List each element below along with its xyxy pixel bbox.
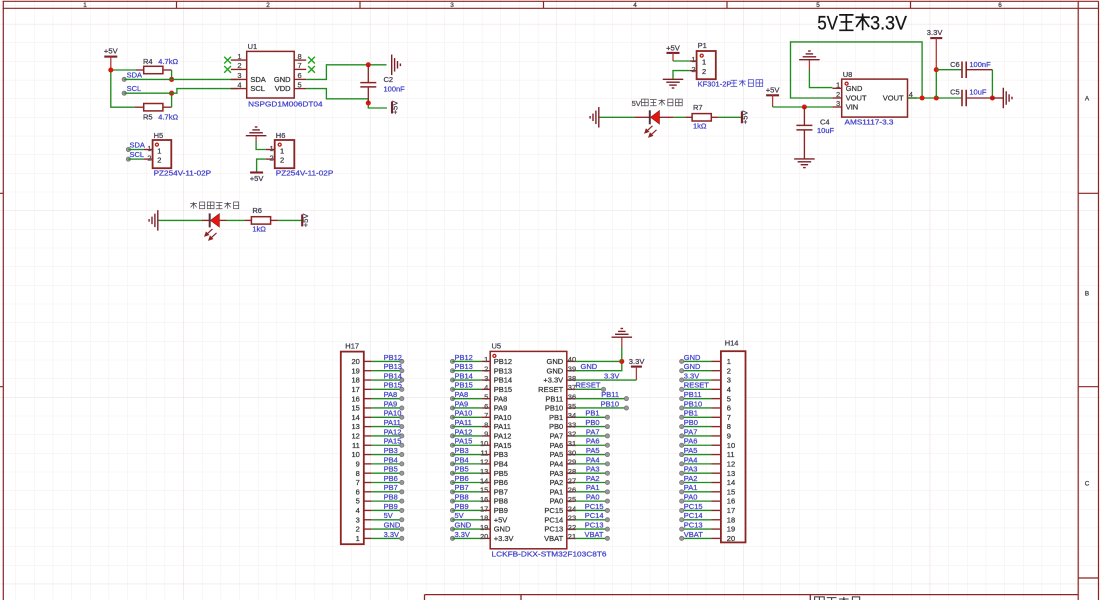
svg-text:C5: C5 xyxy=(950,88,960,97)
svg-text:14: 14 xyxy=(351,413,359,422)
svg-text:PC13: PC13 xyxy=(585,520,604,529)
U5 pin 38 (+3.3V) name/number xyxy=(543,374,576,385)
svg-text:PB10: PB10 xyxy=(601,399,619,408)
svg-text:PC14: PC14 xyxy=(585,511,604,520)
U5 pin 26 wire (PA1) xyxy=(575,483,609,494)
capacitor C6 100nF (horizontal) xyxy=(936,60,992,98)
U5 pin 7 (PA10) xyxy=(450,409,511,422)
svg-text:26: 26 xyxy=(568,486,576,495)
svg-text:18: 18 xyxy=(351,376,359,385)
wire U5 pin37 RESET xyxy=(575,381,605,392)
connector H6 PZ254V-11-02P xyxy=(266,131,334,177)
wire U5 pin39 GND up to pin40 net xyxy=(575,361,621,371)
svg-text:SDA: SDA xyxy=(250,75,265,84)
svg-text:C: C xyxy=(1085,481,1090,488)
ground below C4 xyxy=(794,159,815,168)
IC U8 AMS1117-3.3 xyxy=(832,70,917,127)
svg-text:4: 4 xyxy=(484,383,488,392)
H14 pin 11 (PA5) xyxy=(680,446,735,459)
H14 pin 15 (PA1) xyxy=(680,483,736,496)
svg-text:PB8: PB8 xyxy=(455,493,469,502)
svg-text:40: 40 xyxy=(568,355,576,364)
U5 pin 40 (GND) name/number xyxy=(547,355,577,366)
svg-text:4: 4 xyxy=(237,80,241,89)
svg-text:PB11: PB11 xyxy=(684,390,702,399)
wire R7 to +5V xyxy=(719,116,742,118)
svg-text:2: 2 xyxy=(147,153,151,162)
junction C4 top xyxy=(802,104,807,109)
U5 pin 33 wire (PB0) xyxy=(575,418,609,429)
U5 pin 23 wire (PC14) xyxy=(575,511,609,522)
svg-text:8: 8 xyxy=(727,422,731,431)
H17 pin 11 (PA15) xyxy=(352,437,404,450)
wire P1 pin2 to ground xyxy=(673,71,690,80)
wire U8 GND pin1 to ground above xyxy=(809,60,832,88)
svg-text:12: 12 xyxy=(727,459,735,468)
svg-text:PC15: PC15 xyxy=(684,502,703,511)
svg-text:4.7kΩ: 4.7kΩ xyxy=(158,113,178,122)
svg-text:PA8: PA8 xyxy=(455,390,469,399)
svg-text:PB5: PB5 xyxy=(384,465,398,474)
svg-text:R7: R7 xyxy=(693,103,703,112)
svg-text:PA6: PA6 xyxy=(586,437,600,446)
svg-text:6: 6 xyxy=(356,487,360,496)
svg-text:3: 3 xyxy=(836,99,840,108)
svg-text:5V: 5V xyxy=(817,12,838,34)
svg-text:PA3: PA3 xyxy=(586,465,600,474)
svg-text:R6: R6 xyxy=(252,206,262,215)
U5 pin 16 (PB8) xyxy=(450,493,507,506)
svg-text:PB1: PB1 xyxy=(684,409,698,418)
svg-text:29: 29 xyxy=(568,458,576,467)
svg-text:6: 6 xyxy=(298,71,302,80)
wire U5 pin36 PB11 xyxy=(575,390,628,401)
wire ground to LED xyxy=(600,116,635,118)
svg-text:+5V: +5V xyxy=(104,47,119,56)
wire +5V to R4 and down to R5 xyxy=(111,70,136,107)
resistor R6 1k xyxy=(244,206,278,233)
junction pin4/loop xyxy=(920,95,925,100)
svg-text:PB11: PB11 xyxy=(545,394,563,403)
ground below P1 xyxy=(663,79,684,88)
svg-text:GND: GND xyxy=(581,362,598,371)
connector H5 PZ254V-11-02P xyxy=(144,131,212,177)
svg-text:PB10: PB10 xyxy=(684,399,702,408)
svg-text:PB0: PB0 xyxy=(549,422,563,431)
H14 pin 8 (PB0) xyxy=(680,418,731,431)
svg-text:7: 7 xyxy=(298,61,302,70)
U5 pin 28 (PA3) name/number xyxy=(550,467,577,478)
svg-text:PB8: PB8 xyxy=(384,493,398,502)
H17 pin 13 (PA11) xyxy=(351,418,403,431)
IC U1 NSPGD1M006DT04 xyxy=(231,42,323,108)
svg-text:PB6: PB6 xyxy=(494,478,508,487)
U5 pin 8 (PA11) xyxy=(450,418,511,431)
svg-text:25: 25 xyxy=(568,495,576,504)
svg-text:PA3: PA3 xyxy=(550,469,564,478)
svg-text:1: 1 xyxy=(270,144,274,153)
svg-text:RESET: RESET xyxy=(538,385,563,394)
U5 pin 34 wire (PB1) xyxy=(575,409,609,420)
svg-text:3.3V: 3.3V xyxy=(384,530,399,539)
svg-text:GND: GND xyxy=(494,525,511,534)
wire ground to LED xyxy=(159,219,203,221)
U5 pin 21 wire (VBAT) xyxy=(575,530,609,541)
svg-text:17: 17 xyxy=(351,385,359,394)
wire VOUT loop pin2 to pin4 top xyxy=(791,42,923,98)
U5 pin 24 (PC15) name/number xyxy=(544,504,576,515)
svg-text:+3.3V: +3.3V xyxy=(543,376,563,385)
U5 pin 6 (PA9) xyxy=(450,399,507,412)
H17 pin 18 (PB14) xyxy=(351,371,403,384)
U5 pin 35 (PB10) name/number xyxy=(545,402,576,413)
svg-text:12: 12 xyxy=(351,432,359,441)
U5 pin 30 wire (PA5) xyxy=(575,446,609,457)
U5 pin 1 (PB12) xyxy=(450,353,512,366)
power flag 3.3V at U5 xyxy=(629,357,646,380)
svg-text:PZ254V-11-02P: PZ254V-11-02P xyxy=(276,168,334,177)
svg-text:PA0: PA0 xyxy=(586,493,600,502)
net label SCL + wire to U1 pin4 xyxy=(122,84,238,95)
wire U1 GND pin6 to C2 top / ground xyxy=(306,65,386,80)
svg-text:16: 16 xyxy=(480,495,488,504)
svg-text:PA12: PA12 xyxy=(494,432,512,441)
wire LED to R7 xyxy=(674,116,686,118)
H17 pin 9 (PB4) xyxy=(356,455,404,468)
svg-text:PA2: PA2 xyxy=(550,478,564,487)
svg-text:PB14: PB14 xyxy=(384,371,402,380)
svg-text:GND: GND xyxy=(684,362,701,371)
svg-text:6: 6 xyxy=(998,2,1002,9)
svg-text:PA1: PA1 xyxy=(550,487,564,496)
U5 pin 27 (PA2) name/number xyxy=(550,476,577,487)
wire U5 pin40 GND to junction xyxy=(575,360,621,362)
H17 pin 6 (PB7) xyxy=(356,483,404,496)
svg-text:3: 3 xyxy=(450,2,454,9)
svg-text:22: 22 xyxy=(568,523,576,532)
svg-text:+5V: +5V xyxy=(494,515,508,524)
svg-text:PC14: PC14 xyxy=(684,511,703,520)
svg-text:RESET: RESET xyxy=(576,381,601,390)
svg-text:PB12: PB12 xyxy=(384,353,402,362)
svg-text:35: 35 xyxy=(568,402,576,411)
connector H17 xyxy=(341,341,364,544)
svg-text:GND: GND xyxy=(684,353,701,362)
svg-text:PB9: PB9 xyxy=(455,502,469,511)
svg-text:5V: 5V xyxy=(384,511,393,520)
svg-text:RESET: RESET xyxy=(684,381,709,390)
svg-text:4: 4 xyxy=(727,385,731,394)
svg-text:PB5: PB5 xyxy=(455,465,469,474)
H17 pin 3 (5V) xyxy=(356,511,404,524)
connector P1 KF301-2P xyxy=(690,41,716,79)
svg-text:H5: H5 xyxy=(154,131,164,140)
svg-text:PC15: PC15 xyxy=(585,502,604,511)
svg-text:13: 13 xyxy=(480,467,488,476)
svg-text:PC13: PC13 xyxy=(544,525,563,534)
svg-text:18: 18 xyxy=(727,515,735,524)
wire U5 pin38 to 3.3V flag xyxy=(575,371,636,380)
svg-text:1: 1 xyxy=(836,80,840,89)
svg-text:PA11: PA11 xyxy=(494,422,511,431)
svg-text:U5: U5 xyxy=(492,342,502,351)
svg-text:2: 2 xyxy=(356,525,360,534)
svg-text:17: 17 xyxy=(727,506,735,515)
power flag +5V (rotated, power row) xyxy=(741,110,750,125)
U5 pin 14 (PB6) xyxy=(450,474,507,487)
svg-text:1kΩ: 1kΩ xyxy=(252,224,266,233)
H17 pin 17 (PB15) xyxy=(351,381,403,394)
ground (right of C2) xyxy=(392,55,401,76)
svg-text:19: 19 xyxy=(727,525,735,534)
U5 pin 28 wire (PA3) xyxy=(575,465,609,476)
H17 pin 8 (PB5) xyxy=(356,465,404,478)
svg-text:H6: H6 xyxy=(276,131,286,140)
U5 pin 3 (PB14) xyxy=(450,371,512,384)
svg-text:PA2: PA2 xyxy=(586,474,600,483)
svg-text:20: 20 xyxy=(727,534,735,543)
U5 pin 22 wire (PC13) xyxy=(575,520,609,531)
svg-text:PA10: PA10 xyxy=(494,413,512,422)
svg-text:3.3V: 3.3V xyxy=(455,530,470,539)
svg-text:PA0: PA0 xyxy=(684,493,698,502)
svg-text:PA8: PA8 xyxy=(384,390,398,399)
capacitor C4 10uF (vertical) xyxy=(796,107,834,159)
net label SDA at H5 pin1 xyxy=(126,140,145,151)
svg-text:PB12: PB12 xyxy=(455,353,473,362)
svg-text:33: 33 xyxy=(568,420,576,429)
svg-text:2: 2 xyxy=(266,2,270,9)
U5 pin 9 (PA12) xyxy=(450,427,511,440)
svg-text:4: 4 xyxy=(356,506,360,515)
svg-text:+5V: +5V xyxy=(666,43,681,52)
resistor R5 4.7k xyxy=(135,104,179,122)
svg-text:PB10: PB10 xyxy=(545,404,563,413)
svg-text:PA1: PA1 xyxy=(684,483,698,492)
svg-text:11: 11 xyxy=(352,441,360,450)
H14 pin 17 (PC15) xyxy=(680,502,736,515)
svg-text:10: 10 xyxy=(727,441,735,450)
svg-text:5: 5 xyxy=(727,394,731,403)
svg-text:KF301-2P: KF301-2P xyxy=(698,79,732,88)
svg-text:9: 9 xyxy=(727,432,731,441)
svg-text:VBAT: VBAT xyxy=(584,530,603,539)
svg-text:PA6: PA6 xyxy=(550,441,564,450)
svg-text:8: 8 xyxy=(356,469,360,478)
svg-text:2: 2 xyxy=(836,90,840,99)
svg-text:+5V: +5V xyxy=(250,174,265,183)
svg-text:PA4: PA4 xyxy=(684,455,698,464)
svg-text:21: 21 xyxy=(568,532,576,541)
net label SDA + wire to U1 pin3 xyxy=(122,70,238,81)
svg-text:R5: R5 xyxy=(143,113,153,122)
svg-text:24: 24 xyxy=(568,504,576,513)
svg-text:10uF: 10uF xyxy=(817,126,835,135)
H14 pin 14 (PA2) xyxy=(680,474,736,487)
svg-text:PB14: PB14 xyxy=(455,371,473,380)
LED sensor indicator xyxy=(202,213,227,240)
svg-text:100nF: 100nF xyxy=(384,85,406,94)
H14 pin 16 (PA0) xyxy=(680,493,736,506)
svg-text:10: 10 xyxy=(480,439,488,448)
svg-text:PC15: PC15 xyxy=(544,506,563,515)
svg-text:U8: U8 xyxy=(843,70,853,79)
H17 pin 7 (PB6) xyxy=(356,474,404,487)
IC U5 LCKFB-DKX-STM32F103C8T6 xyxy=(490,342,606,559)
svg-text:11: 11 xyxy=(727,450,735,459)
svg-text:PB9: PB9 xyxy=(384,502,398,511)
U5 pin 32 wire (PA7) xyxy=(575,427,609,438)
svg-text:PB13: PB13 xyxy=(494,366,512,375)
svg-text:13: 13 xyxy=(727,469,735,478)
wire 3.3V stem down to VOUT line xyxy=(935,70,937,98)
svg-text:PB13: PB13 xyxy=(455,362,473,371)
svg-text:1: 1 xyxy=(484,355,488,364)
capacitor C5 10uF (horizontal) xyxy=(950,88,992,107)
H14 pin 2 (GND) xyxy=(680,362,731,375)
svg-text:B: B xyxy=(1085,291,1089,298)
junction C2 top xyxy=(366,62,371,67)
svg-text:5: 5 xyxy=(484,392,488,401)
svg-text:3.3V: 3.3V xyxy=(629,357,646,366)
part label KF301-2P terminal xyxy=(698,79,763,88)
svg-text:PB3: PB3 xyxy=(384,446,398,455)
svg-text:SDA: SDA xyxy=(127,70,142,79)
svg-text:19: 19 xyxy=(351,366,359,375)
svg-text:14: 14 xyxy=(480,476,488,485)
U5 pin 22 (PC13) name/number xyxy=(544,523,576,534)
svg-text:8: 8 xyxy=(484,420,488,429)
H14 pin 1 (GND) xyxy=(680,353,731,366)
svg-text:36: 36 xyxy=(568,392,576,401)
svg-text:5: 5 xyxy=(356,497,360,506)
svg-text:PA11: PA11 xyxy=(455,418,472,427)
U5 pin 5 (PA8) xyxy=(450,390,507,403)
svg-text:PA15: PA15 xyxy=(494,441,512,450)
svg-text:VIN: VIN xyxy=(846,103,859,112)
junction C6 right leg xyxy=(990,95,995,100)
ground (left, power LED row) xyxy=(590,107,599,128)
svg-text:C6: C6 xyxy=(950,60,960,69)
svg-text:1: 1 xyxy=(727,357,731,366)
title block (bottom, clipped) xyxy=(425,595,1079,600)
U5 pin 25 (PA0) name/number xyxy=(550,495,577,506)
U5 pin 2 (PB13) xyxy=(450,362,512,375)
junction at +5V node xyxy=(108,67,113,72)
svg-text:PB4: PB4 xyxy=(494,459,508,468)
H14 pin 3 (3.3V) xyxy=(680,371,731,384)
wire LED to R6 xyxy=(227,219,245,221)
svg-text:PB4: PB4 xyxy=(384,455,398,464)
svg-text:3: 3 xyxy=(727,376,731,385)
svg-text:GND: GND xyxy=(547,357,564,366)
H14 pin 19 (PC13) xyxy=(680,520,736,533)
svg-text:PA15: PA15 xyxy=(455,437,473,446)
svg-text:10: 10 xyxy=(351,450,359,459)
svg-text:PA4: PA4 xyxy=(586,455,600,464)
svg-text:PB0: PB0 xyxy=(585,418,599,427)
U5 pin 15 (PB7) xyxy=(450,483,507,496)
svg-text:3: 3 xyxy=(484,374,488,383)
svg-text:PA8: PA8 xyxy=(494,394,508,403)
svg-text:2: 2 xyxy=(157,156,161,165)
svg-text:+5V: +5V xyxy=(391,100,400,115)
U5 pin 39 (GND) name/number xyxy=(547,365,577,376)
H14 pin 7 (PB1) xyxy=(680,409,731,422)
svg-text:2: 2 xyxy=(691,65,695,74)
svg-text:PA0: PA0 xyxy=(550,497,564,506)
svg-text:PA7: PA7 xyxy=(586,427,600,436)
power flag +5V (VIN) xyxy=(766,86,781,107)
H17 pin 10 (PB3) xyxy=(351,446,403,459)
junction GND net xyxy=(619,359,624,364)
svg-text:PB9: PB9 xyxy=(494,506,508,515)
svg-text:PA2: PA2 xyxy=(684,474,698,483)
resistor R4 4.7k xyxy=(136,57,178,74)
svg-text:PA4: PA4 xyxy=(550,459,564,468)
wire R6 to +5V xyxy=(278,219,302,221)
svg-text:GND: GND xyxy=(384,520,401,529)
svg-text:7: 7 xyxy=(727,413,731,422)
power flag 3.3V (top) xyxy=(927,28,944,70)
junction C2 bottom xyxy=(366,100,371,105)
svg-text:PA11: PA11 xyxy=(384,418,401,427)
svg-text:PA9: PA9 xyxy=(494,404,508,413)
H17 pin 2 (GND) xyxy=(356,520,404,533)
power flag +5V (rotated, sensor row) xyxy=(301,213,310,228)
svg-text:PB7: PB7 xyxy=(455,483,469,492)
svg-text:PB15: PB15 xyxy=(494,385,512,394)
svg-text:NSPGD1M006DT04: NSPGD1M006DT04 xyxy=(248,100,323,109)
ground above H6 pin1 xyxy=(246,127,267,150)
svg-text:4: 4 xyxy=(633,2,637,9)
svg-text:3.3V: 3.3V xyxy=(604,371,619,380)
svg-text:6: 6 xyxy=(484,402,488,411)
svg-text:13: 13 xyxy=(351,422,359,431)
svg-text:PA5: PA5 xyxy=(586,446,600,455)
svg-text:18: 18 xyxy=(480,514,488,523)
U5 pin 32 (PA7) name/number xyxy=(550,430,577,441)
H14 pin 18 (PC14) xyxy=(680,511,736,524)
U5 pin 4 (PB15) xyxy=(450,381,512,394)
U5 pin 31 (PA6) name/number xyxy=(550,439,577,450)
svg-text:1: 1 xyxy=(691,55,695,64)
capacitor C2 100nF xyxy=(360,65,405,103)
svg-text:SDA: SDA xyxy=(130,140,145,149)
junction SCL/R5 xyxy=(169,91,174,96)
H17 pin 14 (PA10) xyxy=(351,409,403,422)
svg-text:16: 16 xyxy=(727,497,735,506)
H14 pin 12 (PA4) xyxy=(680,455,736,468)
svg-text:PB5: PB5 xyxy=(494,469,508,478)
svg-text:1: 1 xyxy=(147,144,151,153)
svg-text:15: 15 xyxy=(727,487,735,496)
svg-text:PC14: PC14 xyxy=(544,515,563,524)
svg-text:PA10: PA10 xyxy=(455,409,473,418)
svg-text:15: 15 xyxy=(351,404,359,413)
svg-text:10uF: 10uF xyxy=(969,88,987,97)
ground right of C5 xyxy=(992,88,1012,109)
svg-text:100nF: 100nF xyxy=(969,60,991,69)
wire R4 to SDA net xyxy=(171,70,173,79)
svg-text:2: 2 xyxy=(727,366,731,375)
wire U1 VDD pin5 to C2 bottom / +5V xyxy=(306,89,387,108)
H17 pin 20 (PB12) xyxy=(351,353,403,366)
U5 pin 33 (PB0) name/number xyxy=(549,420,576,431)
svg-text:5V: 5V xyxy=(632,99,641,108)
svg-text:U1: U1 xyxy=(248,42,258,51)
svg-text:VOUT: VOUT xyxy=(846,94,867,103)
